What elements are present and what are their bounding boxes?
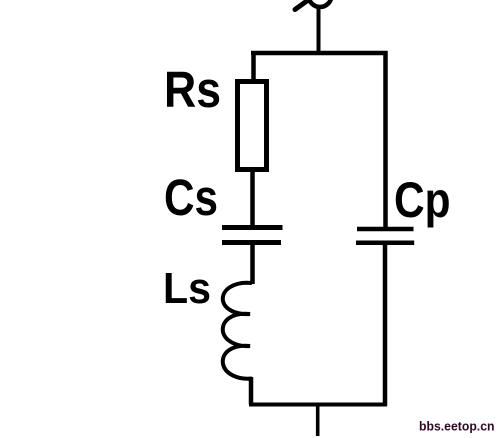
wire Cs to inductor [250,245,255,284]
terminal slash [295,0,311,10]
capacitor Cp [356,229,414,243]
label Rs [164,61,221,118]
watermark bbs.eetop.cn [419,419,495,434]
wire bottom stub [316,404,320,436]
svg-text:Rs: Rs [164,61,221,118]
svg-text:Cp: Cp [394,172,451,228]
wire Cp to bottom rail [383,245,388,406]
label Cs [164,169,218,226]
wire inductor to bottom rail [249,377,254,405]
label Cp [394,172,451,228]
svg-text:bbs.eetop.cn: bbs.eetop.cn [419,419,495,434]
svg-text:Ls: Ls [163,265,211,313]
wire top rail [251,51,388,56]
terminal top circle [309,0,332,7]
wire terminal to top rail [317,6,321,53]
wire bottom rail [249,403,387,407]
capacitor Cs [222,228,283,243]
svg-text:Cs: Cs [164,169,218,226]
inductor Ls [223,283,252,379]
wire rail to Cp [383,51,388,229]
resistor Rs [238,82,267,170]
wire resistor to Cs [250,170,255,228]
wire rail to resistor [251,51,256,81]
label Ls [163,265,211,313]
